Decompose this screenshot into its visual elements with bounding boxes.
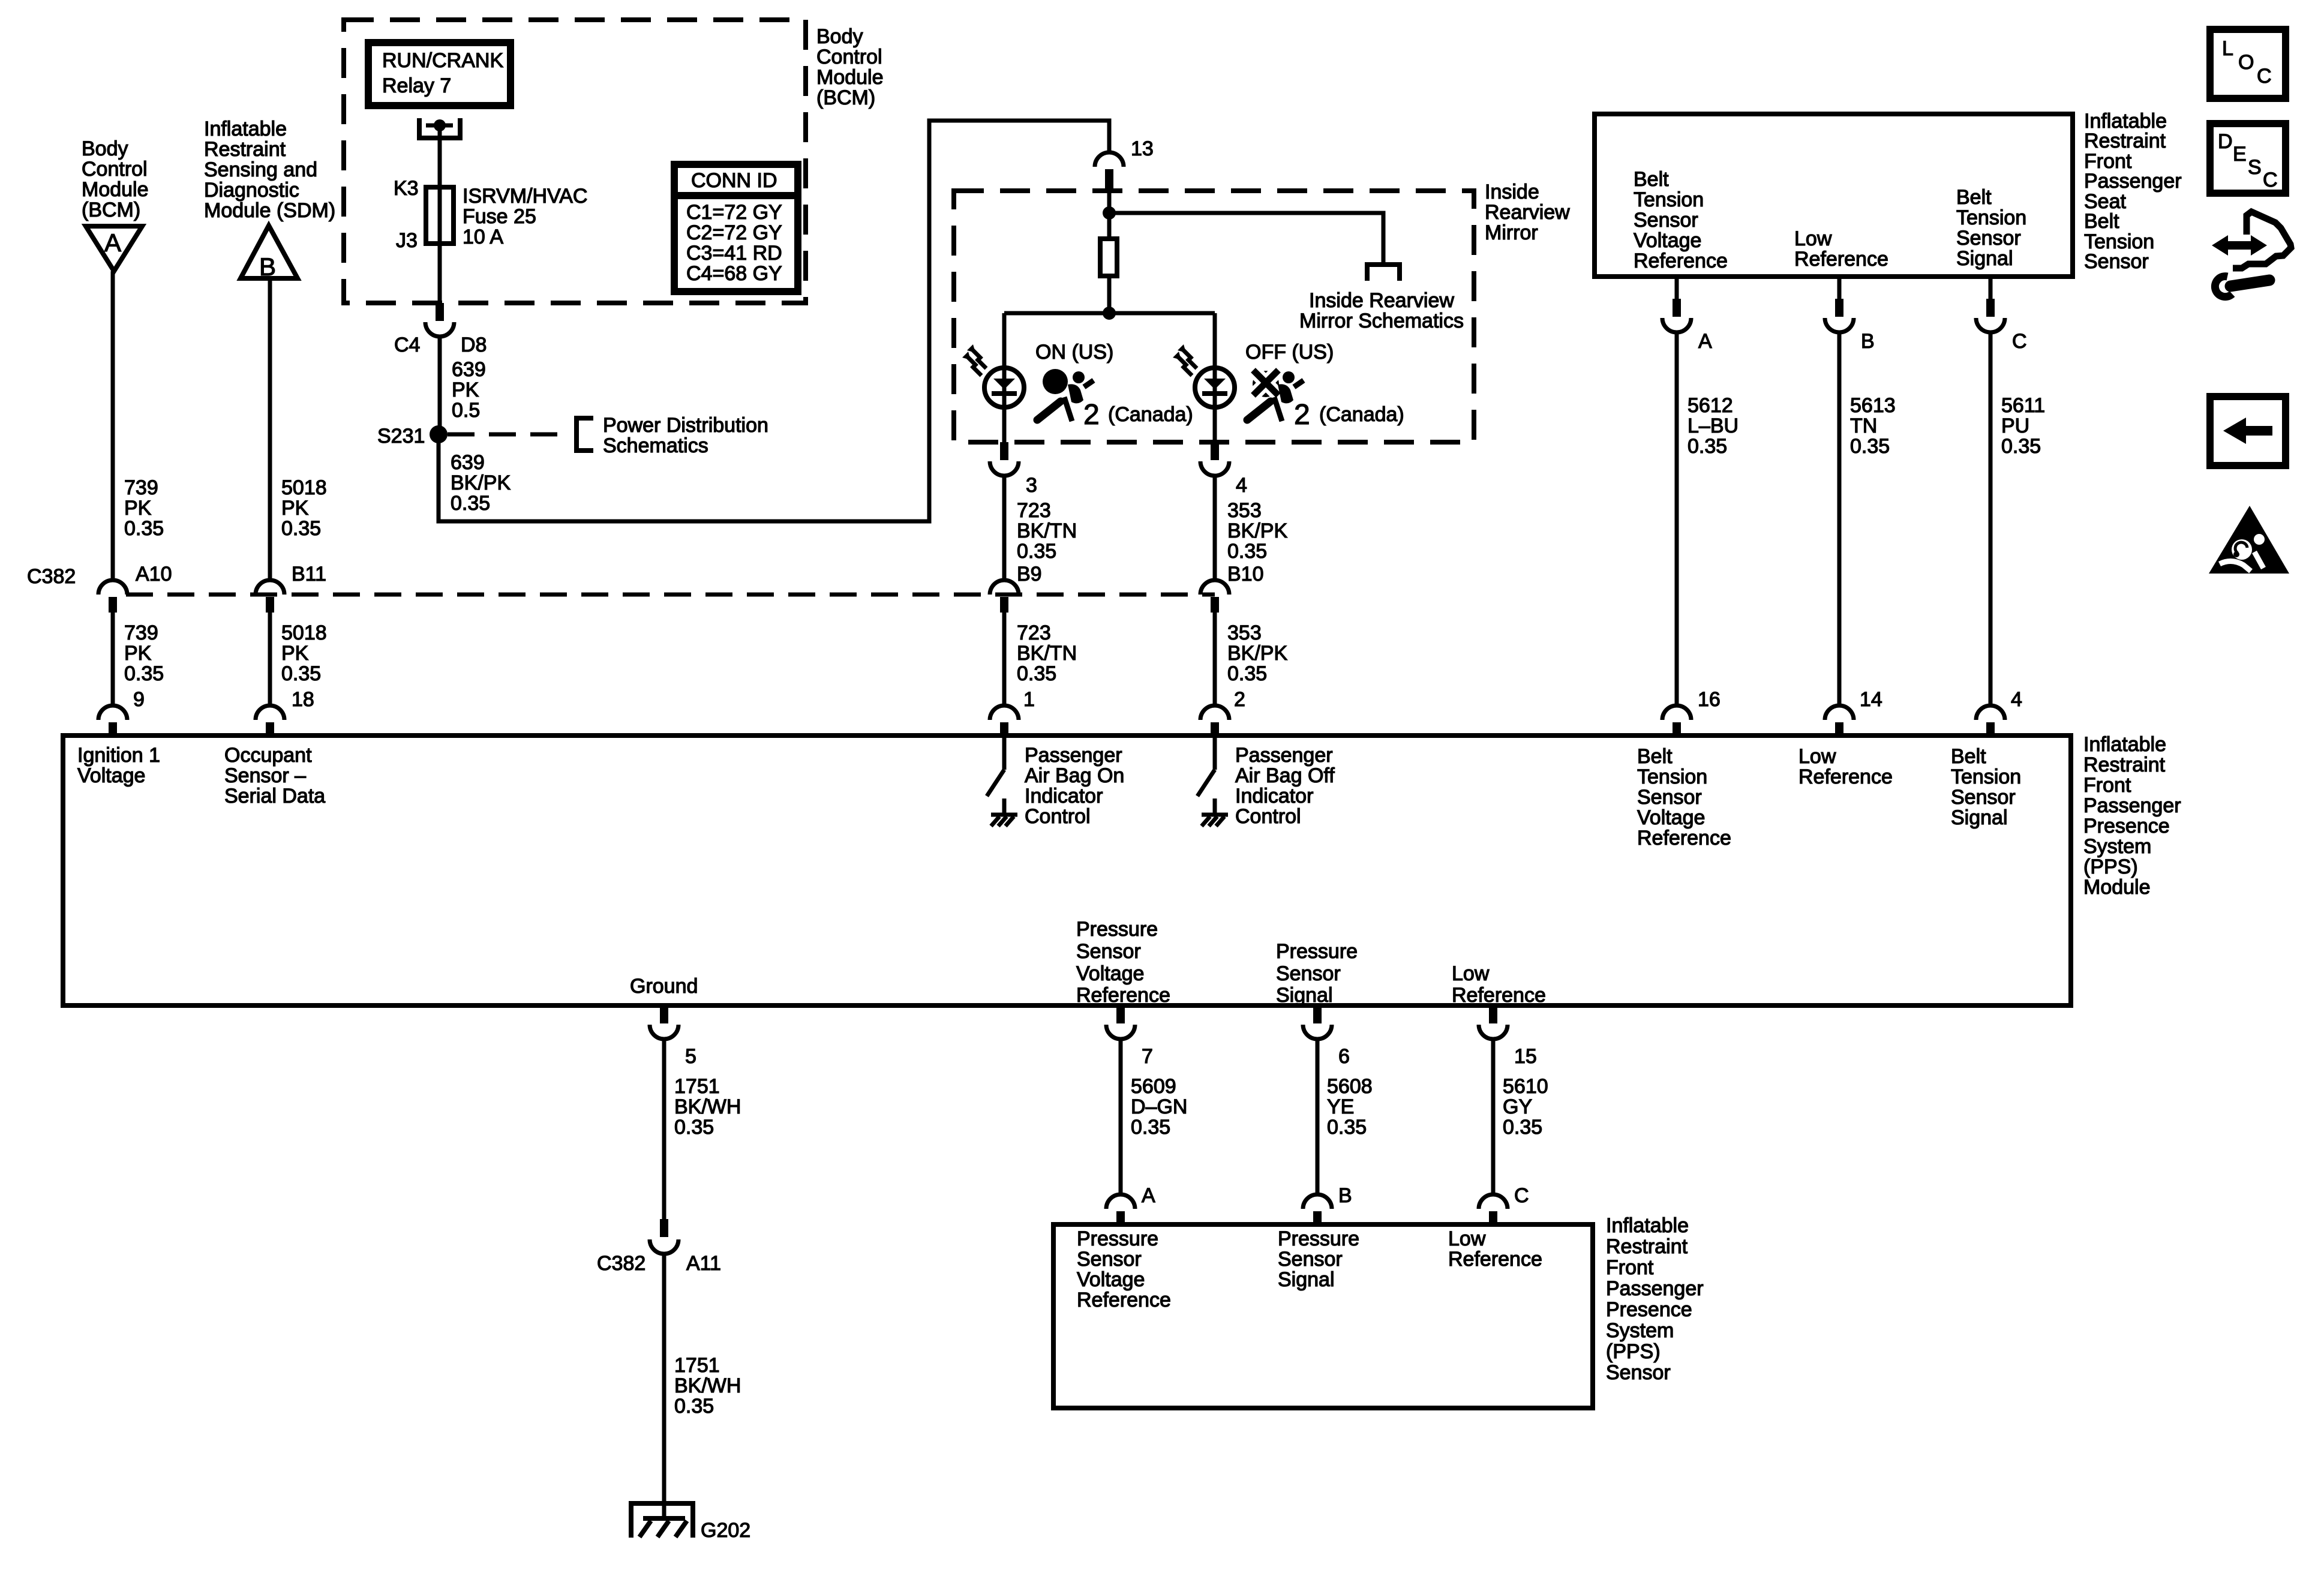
svg-text:GY: GY [1503,1095,1532,1118]
svg-text:2: 2 [1294,399,1310,431]
label Passenger Air Bag Off Indicator Control [1235,744,1335,828]
svg-text:BK/PK: BK/PK [1227,642,1287,665]
svg-text:Control: Control [1025,805,1091,828]
svg-text:0.35: 0.35 [1327,1116,1367,1139]
PPS sensor label right side [1606,1214,1704,1384]
wire A to pin 16 [1675,332,1679,706]
wire into mirror box [1107,191,1112,239]
svg-text:A: A [1698,330,1712,353]
belt tension sensor box (top right) [1595,114,2073,277]
svg-text:Reference: Reference [1794,248,1888,271]
svg-text:C4=68 GY: C4=68 GY [686,262,782,285]
svg-text:Indicator: Indicator [1235,785,1313,807]
svg-text:2: 2 [1083,399,1100,431]
svg-text:0.35: 0.35 [1850,435,1890,458]
svg-text:Relay 7: Relay 7 [382,74,451,97]
label 2 (Canada) OFF [1294,399,1404,431]
svg-text:(BCM): (BCM) [82,199,140,221]
svg-text:Front: Front [2083,774,2131,797]
svg-text:Belt: Belt [1951,745,1986,768]
svg-text:5608: 5608 [1327,1075,1373,1098]
svg-text:Reference: Reference [1637,827,1731,849]
svg-text:Body: Body [82,137,128,160]
svg-text:S: S [2248,156,2262,179]
svg-text:Low: Low [1798,745,1836,768]
wire label 5610 GY 0.35 [1503,1075,1548,1139]
lightning arrows right LED [1173,344,1197,376]
svg-text:A10: A10 [136,563,172,586]
reference bracket Inside Rearview Mirror Schematics [1365,262,1402,281]
svg-text:Low: Low [1448,1227,1486,1250]
svg-text:Control: Control [82,158,148,181]
svg-text:5: 5 [685,1045,696,1068]
svg-text:Belt: Belt [2084,210,2119,233]
svg-text:Low: Low [1794,227,1832,250]
svg-text:A: A [1142,1184,1155,1207]
svg-text:Reference: Reference [1798,766,1893,788]
svg-text:6: 6 [1338,1045,1350,1068]
svg-text:Sensor: Sensor [1951,786,2016,809]
svg-text:0.35: 0.35 [2001,435,2041,458]
svg-text:PK: PK [281,642,309,665]
label 2 (Canada) ON [1083,399,1193,431]
BCM label right of dashed box [816,25,884,109]
label Occupant Sensor - Serial Data [224,744,325,807]
svg-text:1751: 1751 [674,1354,720,1377]
svg-text:B: B [259,253,276,281]
svg-text:Ignition 1: Ignition 1 [77,744,160,767]
svg-text:723: 723 [1017,622,1051,644]
svg-text:Sensor: Sensor [1956,227,2021,250]
svg-text:BK/WH: BK/WH [674,1095,741,1118]
wire pin15 to sensor C [1491,1039,1496,1194]
svg-text:7: 7 [1142,1045,1153,1068]
svg-text:Pressure: Pressure [1076,918,1158,941]
pin 9 connector [98,688,145,738]
svg-text:BK/PK: BK/PK [1227,520,1287,542]
svg-text:C382: C382 [27,565,76,588]
svg-text:C2=72 GY: C2=72 GY [686,221,782,244]
svg-text:Ground: Ground [630,975,698,998]
svg-text:0.35: 0.35 [1227,662,1267,685]
svg-text:0.35: 0.35 [124,517,164,540]
svg-text:Tension: Tension [1956,206,2026,229]
connector C382 A11 [597,1219,721,1275]
svg-text:Restraint: Restraint [2083,754,2166,776]
svg-text:Sensor: Sensor [1076,940,1141,963]
svg-text:Signal: Signal [1951,806,2008,829]
sidebar DESC icon [2210,124,2286,193]
BCM module label (top-left) [82,137,149,221]
svg-text:System: System [1606,1319,1674,1342]
wire label 723 BK/TN 0.35 upper [1017,499,1077,563]
ground G202 [629,1501,750,1542]
svg-text:0.35: 0.35 [674,1116,714,1139]
svg-text:D–GN: D–GN [1131,1095,1187,1118]
svg-text:353: 353 [1227,499,1262,522]
svg-text:5612: 5612 [1688,394,1733,417]
sidebar LOC icon [2210,29,2286,98]
wire conn4 to B10 [1213,476,1217,580]
svg-text:1751: 1751 [674,1075,720,1098]
svg-text:Voltage: Voltage [1634,229,1701,252]
connector A10 [98,563,172,613]
svg-text:Reference: Reference [1077,1289,1171,1311]
svg-text:Sensor: Sensor [1278,1248,1343,1271]
label Belt Tension Sensor Signal (module) [1951,745,2021,829]
wire label 639 PK 0.5 [452,358,486,422]
svg-text:B: B [1861,330,1875,353]
RUN/CRANK Relay 7 box [368,43,511,106]
svg-text:Belt: Belt [1956,186,1992,209]
svg-text:4: 4 [2011,688,2022,711]
connector B9 [990,563,1042,613]
svg-text:CONN ID: CONN ID [691,169,777,192]
wire B to pin 14 [1837,332,1842,706]
svg-text:Inflatable: Inflatable [204,118,287,140]
connector C4/D8 [394,303,487,356]
wire left LED to box edge [1002,407,1007,442]
wire A triangle to C382 [111,271,115,580]
sidebar back arrow icon [2210,397,2286,466]
svg-text:5609: 5609 [1131,1075,1176,1098]
wire B10 to pin 2 [1213,613,1217,706]
svg-text:4: 4 [1236,474,1247,497]
wire label 639 BK/PK 0.35 [451,451,511,515]
svg-text:Module: Module [82,178,149,201]
svg-text:PK: PK [124,642,152,665]
svg-text:A: A [104,229,121,257]
resistor in mirror [1100,239,1117,276]
svg-text:O: O [2238,51,2254,74]
wire label 5018 PK 0.35 lower [281,622,327,685]
pin 2 connector [1200,688,1245,738]
svg-text:PK: PK [124,497,152,520]
svg-text:System: System [2083,835,2151,858]
svg-text:C: C [2263,169,2278,191]
sidebar airbag warning triangle [2209,506,2289,574]
svg-text:9: 9 [133,688,145,711]
lightning arrows left LED [962,344,986,376]
wire resistor to junction 2 [1107,276,1112,313]
wire label 5018 PK 0.35 upper [281,476,327,540]
svg-text:B11: B11 [292,563,326,586]
svg-text:Inflatable: Inflatable [2083,733,2166,756]
svg-text:PU: PU [2001,415,2029,437]
switch passenger air bag on indicator control [987,738,1017,826]
svg-text:Restraint: Restraint [1606,1235,1688,1258]
svg-text:C: C [1514,1184,1529,1207]
svg-text:5018: 5018 [281,622,327,644]
svg-text:B9: B9 [1017,563,1042,586]
wire label 1751 BK/WH 0.35 upper [674,1075,741,1139]
pin 1 connector [990,688,1035,738]
svg-text:B: B [1338,1184,1352,1207]
svg-text:D: D [2218,130,2233,153]
svg-text:K3: K3 [394,177,419,200]
svg-text:Voltage: Voltage [1076,962,1144,985]
svg-text:(PPS): (PPS) [1606,1340,1661,1363]
svg-text:BK/WH: BK/WH [674,1374,741,1397]
svg-text:Reference: Reference [1076,984,1170,1007]
svg-text:5611: 5611 [2001,394,2045,417]
svg-text:Tension: Tension [1951,766,2021,788]
svg-text:Sensor: Sensor [1606,1361,1671,1384]
belt tension sensor label right side [2084,110,2182,273]
wire junction 2 to both LEDs [1004,311,1215,316]
dashed reference wire to Power Distribution [448,433,563,437]
svg-text:J3: J3 [396,229,418,252]
svg-text:TN: TN [1850,415,1877,437]
SDM module label [204,118,335,222]
label Passenger Air Bag On Indicator Control [1025,744,1124,828]
svg-text:0.35: 0.35 [1503,1116,1542,1139]
svg-text:0.35: 0.35 [451,492,490,515]
svg-text:Schematics: Schematics [603,434,708,457]
wire relay to fuse [438,128,442,187]
pin 5 connector ground [650,1005,696,1068]
svg-text:Voltage: Voltage [1077,1268,1145,1291]
svg-text:BK/TN: BK/TN [1017,520,1077,542]
connector 4 [1200,442,1247,497]
svg-text:Reference: Reference [1634,250,1728,272]
reference bracket Power Distribution [574,416,593,453]
sidebar repair icon (arrow and wrench) [2212,212,2291,297]
svg-text:Body: Body [816,25,863,48]
svg-text:5610: 5610 [1503,1075,1548,1098]
svg-text:5018: 5018 [281,476,327,499]
svg-text:Tension: Tension [1634,188,1704,211]
svg-text:C3=41 RD: C3=41 RD [686,242,782,265]
feed wire S231 to connector 13 [439,121,1109,521]
wire B triangle to C382 [268,278,272,580]
svg-text:Passenger: Passenger [1025,744,1122,767]
svg-text:0.35: 0.35 [1227,540,1267,563]
pin 6 connector [1303,1005,1350,1068]
svg-text:639: 639 [452,358,486,381]
svg-text:0.35: 0.35 [1017,540,1056,563]
svg-text:OFF (US): OFF (US) [1245,341,1334,364]
pin 4 connector (module) [1976,688,2022,738]
label Ignition 1 Voltage [77,744,160,787]
pin 16 connector [1662,688,1721,738]
wire C4 to S231 [438,337,442,434]
svg-text:Restraint: Restraint [2084,130,2166,152]
wire A11 to G202 [662,1254,666,1503]
svg-text:C382: C382 [597,1252,645,1275]
svg-text:Sensor –: Sensor – [224,764,306,787]
label Pressure Sensor Voltage Reference (module) [1076,918,1170,1007]
svg-text:Sensor: Sensor [1077,1248,1142,1271]
wire label 353 BK/PK 0.35 upper [1227,499,1287,563]
svg-text:Pressure: Pressure [1077,1227,1158,1250]
svg-text:Reference: Reference [1448,1248,1542,1271]
connector 3 [990,442,1037,497]
svg-text:S231: S231 [377,425,425,448]
svg-text:Fuse 25: Fuse 25 [463,205,536,228]
svg-text:13: 13 [1131,137,1154,160]
svg-text:14: 14 [1860,688,1882,711]
svg-text:Passenger: Passenger [1235,744,1333,767]
C382 in-line connector dashed interconnect [126,593,1215,597]
wire pin7 to sensor A [1119,1039,1123,1194]
sensor pin A connector [1106,1184,1155,1227]
svg-text:Power Distribution: Power Distribution [603,414,768,437]
svg-text:Low: Low [1452,962,1490,985]
svg-text:10 A: 10 A [463,226,503,248]
svg-text:Pressure: Pressure [1278,1227,1359,1250]
svg-text:Sensing and: Sensing and [204,158,317,181]
sensor pin A exit connector [1662,277,1712,353]
label Low Reference (module) [1798,745,1893,788]
svg-text:353: 353 [1227,622,1262,644]
svg-text:ON (US): ON (US) [1035,341,1113,364]
fuse ISRVM/HVAC Fuse 25 10A [394,177,587,252]
svg-text:L–BU: L–BU [1688,415,1739,437]
CONN ID table [674,164,798,292]
svg-text:Sensor: Sensor [1276,962,1341,985]
LED passenger air bag off indicator [1195,368,1235,407]
svg-text:Module (SDM): Module (SDM) [204,199,335,222]
svg-text:Rearview: Rearview [1485,201,1570,224]
label Inside Rearview Mirror Schematics [1299,289,1464,332]
svg-text:(Canada): (Canada) [1319,403,1404,426]
label Pressure Sensor Signal (module) [1276,940,1358,1007]
svg-text:L: L [2222,37,2233,60]
sensor pin B connector [1303,1184,1352,1227]
svg-text:Mirror Schematics: Mirror Schematics [1299,310,1464,332]
connector 13 [1095,137,1154,192]
wire junction to mirror schematics bracket [1109,213,1383,262]
svg-text:Module: Module [816,66,884,89]
svg-text:(BCM): (BCM) [816,86,875,109]
svg-text:Diagnostic: Diagnostic [204,179,299,202]
wire pin6 to sensor B [1316,1039,1320,1194]
wire label 1751 BK/WH 0.35 lower [674,1354,741,1418]
wire label 739 PK 0.35 upper [124,476,164,540]
svg-text:3: 3 [1026,474,1037,497]
svg-text:Control: Control [816,46,882,68]
svg-text:Signal: Signal [1278,1268,1335,1291]
svg-text:PK: PK [281,497,309,520]
svg-text:BK/TN: BK/TN [1017,642,1077,665]
wire fuse to box edge [438,244,442,303]
wire label 5609 D-GN 0.35 [1131,1075,1187,1139]
svg-text:739: 739 [124,476,158,499]
Inside Rearview Mirror dashed box [954,191,1474,442]
label Low Reference (sensor top) [1794,227,1888,271]
wire label 5608 YE 0.35 [1327,1075,1373,1139]
svg-text:ISRVM/HVAC: ISRVM/HVAC [463,185,587,208]
wire label 5611 PU 0.35 [2001,394,2045,458]
svg-text:Sensor: Sensor [2084,250,2149,273]
label Power Distribution Schematics [603,414,768,457]
svg-text:Signal: Signal [1956,247,2013,270]
wire A10 to pin 9 [111,613,115,706]
svg-text:723: 723 [1017,499,1051,522]
svg-text:0.35: 0.35 [674,1395,714,1418]
svg-text:739: 739 [124,622,158,644]
svg-text:0.35: 0.35 [1131,1116,1170,1139]
LED passenger air bag on indicator [984,368,1024,407]
svg-text:5613: 5613 [1850,394,1896,417]
svg-text:2: 2 [1234,688,1245,711]
wire right LED to box edge [1213,407,1217,442]
airbag icon ON [1037,369,1094,421]
svg-text:Air Bag Off: Air Bag Off [1235,764,1335,787]
triangle A (BCM) [86,226,142,271]
svg-text:0.35: 0.35 [1017,662,1056,685]
label Pressure Sensor Voltage Reference (sensor) [1077,1227,1171,1311]
svg-text:Pressure: Pressure [1276,940,1358,963]
label Low Reference (sensor) [1448,1227,1542,1271]
svg-text:C1=72 GY: C1=72 GY [686,201,782,224]
svg-text:0.35: 0.35 [124,662,164,685]
wire label 353 BK/PK 0.35 lower [1227,622,1287,685]
svg-text:Passenger: Passenger [2084,170,2182,193]
wire B9 to pin 1 [1002,613,1007,706]
svg-text:Inside: Inside [1485,181,1539,203]
svg-text:B10: B10 [1227,563,1264,586]
svg-text:Presence: Presence [2083,815,2170,837]
svg-text:Reference: Reference [1452,984,1546,1007]
svg-text:(PPS): (PPS) [2083,855,2138,878]
wire B11 to pin 18 [268,613,272,706]
label Belt Tension Sensor Signal (sensor top) [1956,186,2026,270]
svg-text:Inside Rearview: Inside Rearview [1309,289,1454,312]
svg-text:C4: C4 [394,334,420,356]
svg-text:16: 16 [1698,688,1721,711]
svg-text:(Canada): (Canada) [1108,403,1193,426]
svg-text:Mirror: Mirror [1485,221,1538,244]
svg-text:Tension: Tension [1637,766,1707,788]
connector B10 [1200,563,1264,613]
pin 15 connector [1479,1005,1537,1068]
wire label 5613 TN 0.35 [1850,394,1896,458]
svg-text:Passenger: Passenger [1606,1277,1704,1300]
wire pin5 to C382 A11 [662,1039,666,1219]
svg-text:Occupant: Occupant [224,744,312,767]
svg-text:E: E [2233,143,2247,166]
airbag icon OFF crossed [1247,369,1304,421]
svg-text:D8: D8 [461,334,487,356]
svg-text:Belt: Belt [1637,745,1673,768]
svg-text:Voltage: Voltage [1637,806,1705,829]
svg-text:Front: Front [1606,1256,1654,1279]
svg-text:Sensor: Sensor [1634,209,1698,232]
svg-text:0.5: 0.5 [452,399,480,422]
pin 18 connector [256,688,314,738]
triangle B (SDM) [241,226,298,281]
svg-text:Voltage: Voltage [77,764,145,787]
svg-text:0.35: 0.35 [1688,435,1727,458]
wire label 723 BK/TN 0.35 lower [1017,622,1077,685]
wire C to pin 4 [1989,332,1993,706]
node junction 1 [1103,206,1116,220]
sensor pin B exit connector [1825,277,1875,353]
wire label 5612 L-BU 0.35 [1688,394,1739,458]
svg-text:Presence: Presence [1606,1298,1692,1321]
splice S231 [377,425,448,448]
svg-text:Sensor: Sensor [1637,786,1702,809]
svg-text:C: C [2257,65,2272,88]
svg-text:PK: PK [452,379,479,401]
svg-text:Passenger: Passenger [2083,794,2181,817]
sensor pin C exit connector [1976,277,2027,353]
svg-text:Inflatable: Inflatable [1606,1214,1689,1237]
label Low Reference (module bottom) [1452,962,1546,1007]
label Pressure Sensor Signal (sensor) [1278,1227,1359,1291]
